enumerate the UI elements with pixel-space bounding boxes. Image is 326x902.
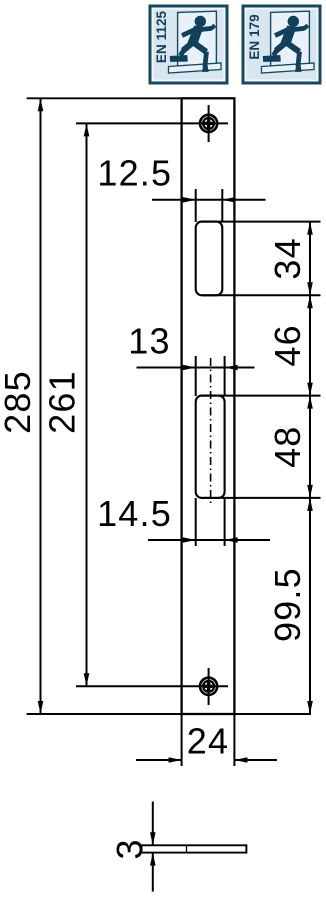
running man — [263, 16, 308, 72]
svg-text:99.5: 99.5 — [267, 567, 308, 642]
door frame — [262, 11, 315, 73]
extension lines right side slots — [203, 222, 321, 498]
svg-text:46: 46 — [267, 324, 308, 366]
latch slot — [196, 222, 223, 296]
extension line plate top left — [27, 97, 182, 99]
door frame — [169, 11, 222, 73]
svg-text:EN 1125: EN 1125 — [154, 10, 169, 63]
svg-text:12.5: 12.5 — [97, 153, 172, 194]
svg-text:EN 179: EN 179 — [247, 14, 262, 60]
running man — [170, 16, 215, 72]
deadbolt center line — [210, 358, 212, 503]
svg-text:261: 261 — [42, 370, 83, 434]
svg-text:285: 285 — [0, 370, 38, 434]
right chained dim line — [307, 222, 313, 714]
dim 14.5 — [148, 498, 270, 546]
svg-text:48: 48 — [267, 425, 308, 467]
door sill — [262, 63, 315, 73]
svg-text:3: 3 — [109, 839, 150, 859]
screw hole top — [200, 105, 217, 142]
plate outline — [182, 98, 235, 714]
screw hole bottom — [200, 668, 217, 705]
extension line bottom hole — [76, 685, 228, 687]
door sill — [169, 63, 222, 73]
side bar — [142, 845, 247, 852]
deadbolt slot — [196, 396, 225, 498]
svg-text:34: 34 — [267, 237, 308, 279]
dim 13 — [137, 356, 255, 396]
svg-text:14.5: 14.5 — [97, 493, 172, 534]
svg-text:13: 13 — [128, 321, 170, 362]
svg-text:24: 24 — [187, 721, 229, 762]
dim 261 line — [84, 123, 90, 686]
extension line plate bottom — [27, 713, 311, 715]
icon EN 179 — [242, 5, 322, 85]
side bar inner tick — [186, 845, 188, 852]
icon EN 1125 — [149, 5, 229, 85]
extension line top hole — [76, 122, 228, 124]
dim 3 — [150, 802, 156, 892]
dim 24 — [136, 714, 277, 766]
dim 12.5 — [152, 189, 266, 222]
dim 285 line — [38, 98, 44, 714]
